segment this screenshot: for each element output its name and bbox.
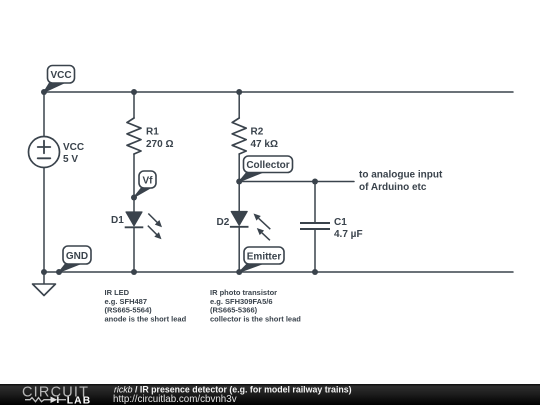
node Vf bbox=[131, 195, 137, 201]
svg-text:270 Ω: 270 Ω bbox=[146, 139, 173, 150]
node collector bbox=[236, 179, 242, 185]
svg-text:http://circuitlab.com/cbvnh3v: http://circuitlab.com/cbvnh3v bbox=[113, 394, 237, 405]
label D1 bbox=[111, 215, 124, 226]
node gnd left bbox=[41, 269, 47, 275]
node VCC rail left bbox=[41, 89, 47, 95]
svg-text:VCC: VCC bbox=[50, 70, 71, 81]
svg-text:to analogue input: to analogue input bbox=[359, 170, 443, 181]
note IR LED details bbox=[105, 288, 187, 323]
label D2 bbox=[217, 217, 230, 228]
resistor R1 bbox=[127, 118, 141, 154]
svg-text:Collector: Collector bbox=[246, 160, 289, 171]
wire top rail bbox=[44, 91, 513, 93]
flag Collector bbox=[239, 156, 293, 182]
svg-text:Vf: Vf bbox=[143, 176, 154, 187]
svg-text:D1: D1 bbox=[111, 215, 124, 226]
wire C1 top lead bbox=[314, 182, 316, 224]
wire D2 emitter to bottom rail bbox=[238, 227, 240, 272]
node dots bbox=[41, 89, 318, 275]
svg-text:collector is the short lead: collector is the short lead bbox=[210, 315, 301, 324]
svg-text:4.7 µF: 4.7 µF bbox=[334, 229, 363, 240]
wire R1 to D1 bbox=[133, 154, 135, 212]
footer title text bbox=[113, 385, 352, 405]
wire R2 branch top bbox=[238, 92, 240, 118]
svg-text:47 kΩ: 47 kΩ bbox=[251, 139, 278, 150]
node gnd flag bbox=[56, 269, 62, 275]
LED D1 bbox=[125, 212, 162, 239]
label R1 value bbox=[146, 127, 173, 151]
logo CircuitLab bbox=[22, 385, 91, 407]
node emitter bottom bbox=[236, 269, 242, 275]
svg-text:R2: R2 bbox=[251, 127, 264, 138]
node D1 bottom bbox=[131, 269, 137, 275]
svg-text:(RS665-5564): (RS665-5564) bbox=[105, 305, 153, 314]
node C1 top bbox=[312, 179, 318, 185]
flag Emitter bbox=[239, 247, 284, 273]
resistor R2 bbox=[232, 118, 246, 154]
ground symbol bbox=[33, 272, 56, 296]
wire bottom rail bbox=[44, 271, 513, 273]
svg-text:5 V: 5 V bbox=[63, 154, 78, 165]
label R2 value bbox=[251, 127, 278, 151]
wire collector node to D2 bbox=[238, 182, 240, 212]
svg-text:C1: C1 bbox=[334, 217, 347, 228]
flag GND bbox=[59, 246, 92, 273]
capacitor C1 bbox=[300, 223, 330, 229]
flag Vf bbox=[134, 171, 157, 198]
node R1 top bbox=[131, 89, 137, 95]
voltage source V1 VCC 5V bbox=[29, 137, 85, 168]
svg-text:anode is the short lead: anode is the short lead bbox=[105, 315, 187, 324]
note IR photo transistor details bbox=[210, 288, 301, 323]
node C1 bottom bbox=[312, 269, 318, 275]
label C1 value bbox=[334, 217, 363, 240]
wire C1 bottom lead bbox=[314, 229, 316, 272]
phototransistor D2 bbox=[230, 212, 270, 241]
wire left branch lower (V1 to bottom rail) bbox=[43, 168, 45, 272]
svg-text:(RS665-5366): (RS665-5366) bbox=[210, 305, 258, 314]
wire D1 to bottom rail bbox=[133, 227, 135, 272]
svg-text:D2: D2 bbox=[217, 217, 230, 228]
svg-text:of Arduino etc: of Arduino etc bbox=[359, 182, 427, 193]
svg-text:VCC: VCC bbox=[63, 142, 84, 153]
wire collector output to analogue input bbox=[239, 181, 354, 183]
svg-text:R1: R1 bbox=[146, 127, 159, 138]
note to analogue input bbox=[359, 170, 443, 194]
svg-text:Emitter: Emitter bbox=[247, 252, 282, 263]
flag VCC bbox=[44, 66, 75, 93]
svg-text:GND: GND bbox=[66, 251, 88, 262]
wire R2 to collector node bbox=[238, 154, 240, 182]
node R2 top bbox=[236, 89, 242, 95]
wire left branch upper (V1 to top rail) bbox=[43, 92, 45, 137]
wire R1 branch top bbox=[133, 92, 135, 118]
svg-text:LAB: LAB bbox=[67, 396, 91, 405]
footer bar bbox=[0, 384, 540, 405]
